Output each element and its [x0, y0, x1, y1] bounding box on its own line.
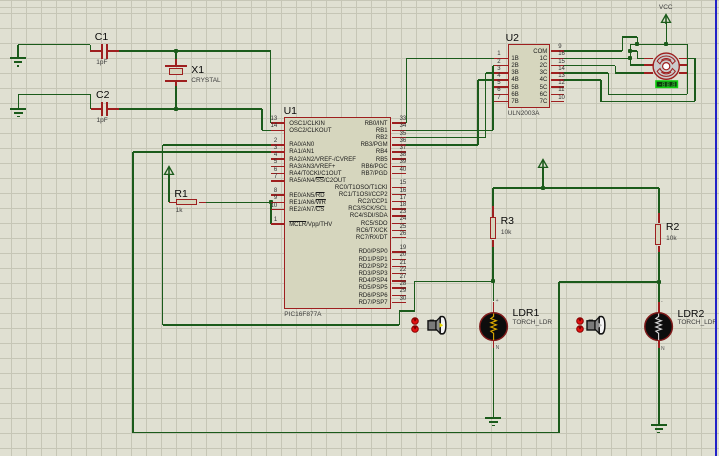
pin 6 stub — [271, 173, 285, 175]
junction — [628, 49, 632, 53]
pin name — [328, 149, 388, 156]
wire — [477, 80, 479, 145]
pin 14 stub — [271, 130, 285, 132]
motor lead bottom-left — [644, 72, 653, 74]
pin number 5 — [441, 80, 501, 87]
wire — [694, 58, 696, 101]
pin name — [511, 63, 518, 70]
wire — [687, 58, 695, 60]
pin number 9 — [217, 195, 277, 202]
pin 39 stub — [392, 166, 405, 168]
label VCC — [659, 4, 673, 11]
pin name — [328, 164, 388, 171]
pin name — [511, 70, 518, 77]
wire — [206, 202, 271, 204]
wire — [399, 311, 401, 325]
pin name — [289, 222, 332, 229]
pin mark — [496, 298, 499, 305]
pin number 34 — [400, 123, 407, 130]
pin number 9 — [558, 44, 561, 51]
wire — [542, 168, 544, 188]
wire — [615, 72, 644, 74]
pin name — [511, 85, 518, 92]
label C2 — [96, 90, 109, 101]
pin 28 stub — [392, 287, 405, 289]
pin name — [289, 200, 326, 207]
wire — [558, 282, 560, 433]
pin name — [328, 235, 388, 242]
wire — [415, 281, 494, 283]
wire — [270, 51, 272, 123]
pin number 39 — [400, 159, 407, 166]
pin name — [328, 285, 388, 292]
wire — [90, 45, 92, 52]
sounder LS1 state dots — [411, 317, 419, 325]
pin 9 stub — [271, 202, 285, 204]
label X1 — [191, 65, 204, 76]
capacitor C1 — [90, 50, 101, 52]
pin name — [289, 207, 324, 214]
wire — [608, 94, 687, 96]
pin 29 stub — [392, 295, 405, 297]
pin name — [328, 199, 388, 206]
pin 34 stub — [392, 130, 405, 132]
wire — [486, 72, 495, 74]
pin number 15 — [558, 59, 565, 66]
pin 15 stub — [551, 65, 564, 67]
pin name — [328, 171, 388, 178]
wire — [658, 188, 660, 212]
value 1k — [176, 207, 183, 214]
wire — [615, 66, 617, 74]
pin name — [328, 278, 388, 285]
junction — [491, 279, 495, 283]
wire — [622, 36, 637, 38]
pin mark — [661, 299, 663, 306]
label LDR1 — [513, 308, 540, 319]
wire 1C — [564, 58, 630, 60]
pin 23 stub — [392, 215, 405, 217]
pin number 16 — [558, 51, 565, 58]
pin 26 stub — [392, 237, 405, 239]
sounder LS1 speaker icon — [427, 313, 449, 337]
pin 37 stub — [392, 151, 405, 153]
wire — [637, 51, 639, 58]
pin number 8 — [217, 188, 277, 195]
junction — [174, 49, 178, 53]
crystal X1 — [175, 51, 177, 58]
pin name — [487, 63, 547, 70]
pin name — [328, 249, 388, 256]
pin name — [289, 142, 314, 149]
pin name — [487, 77, 547, 84]
grid edge line top — [0, 0, 719, 1]
wire RB3 to 4B — [406, 144, 478, 146]
pin number 23 — [400, 209, 407, 216]
ground — [17, 45, 19, 59]
wire — [493, 348, 495, 418]
pin 8 stub — [271, 194, 285, 196]
wire — [119, 108, 262, 110]
label LDR2 — [678, 309, 705, 320]
pin number 5 — [217, 159, 277, 166]
pin 24 stub — [392, 223, 405, 225]
pin name — [511, 99, 518, 106]
pin number 35 — [400, 131, 407, 138]
value TORCH_LDR — [678, 319, 718, 326]
pin 6 stub — [494, 94, 508, 96]
pin number 10 — [217, 203, 277, 210]
pin mark — [661, 346, 665, 353]
wire — [168, 175, 170, 203]
pin number 1 — [217, 217, 277, 224]
pin name — [328, 228, 388, 235]
pin name — [511, 77, 518, 84]
wire RB1 to 2B — [406, 130, 493, 132]
pin name — [289, 193, 324, 200]
pin number 20 — [400, 252, 407, 259]
pin 35 stub — [392, 137, 405, 139]
pin number 38 — [400, 152, 407, 159]
wire — [175, 86, 177, 109]
pin 14 stub — [551, 72, 564, 74]
wire — [492, 188, 494, 206]
pin name — [328, 192, 388, 199]
power VCC arrow — [660, 13, 672, 24]
pin number 28 — [400, 281, 407, 288]
wire RA0 sense — [163, 144, 271, 146]
value CRYSTAL — [191, 77, 220, 84]
pin 15 stub — [392, 187, 405, 189]
pin 21 stub — [392, 266, 405, 268]
pin name — [328, 293, 388, 300]
IC U2 ULN2003A — [508, 44, 550, 108]
pin 5 stub — [271, 166, 285, 168]
wire 1C net vertical — [630, 44, 632, 65]
wire — [601, 101, 695, 103]
pin 33 stub — [392, 122, 405, 124]
pin number 3 — [441, 66, 501, 73]
wire — [478, 79, 494, 81]
pin name — [328, 206, 388, 213]
pin name — [328, 221, 388, 228]
motor display — [655, 80, 679, 89]
pin 38 stub — [392, 158, 405, 160]
pin name — [487, 56, 547, 63]
value 1pF — [96, 59, 107, 66]
pin name — [487, 49, 547, 56]
pin number 15 — [400, 180, 407, 187]
pin 4 stub — [271, 158, 285, 160]
pin number 4 — [441, 73, 501, 80]
wire — [162, 145, 164, 325]
pin 10 stub — [551, 101, 564, 103]
resistor R1 — [169, 202, 176, 204]
pin name — [328, 121, 388, 128]
label U2 — [506, 33, 519, 44]
sounder LS2 state dots — [576, 317, 584, 325]
wire — [608, 73, 610, 95]
wire — [261, 109, 263, 130]
pin name — [328, 128, 388, 135]
junction — [657, 280, 661, 284]
wire — [637, 58, 644, 60]
pin 16 stub — [392, 194, 405, 196]
pin name — [328, 213, 388, 220]
power VCC arrow — [163, 165, 175, 176]
pin name — [487, 85, 547, 92]
pin name — [289, 171, 341, 178]
pin number 13 — [558, 73, 565, 80]
wire COM step — [564, 50, 622, 52]
wire divider rail — [493, 187, 659, 189]
resistor R3 — [492, 206, 494, 217]
pin number 12 — [558, 80, 565, 87]
wire — [600, 80, 602, 102]
pin number 21 — [400, 260, 407, 267]
wire — [485, 73, 487, 138]
wire — [559, 281, 659, 283]
pin number 37 — [400, 145, 407, 152]
junction — [635, 42, 639, 46]
pin 22 stub — [392, 273, 405, 275]
wire VCC rail — [630, 44, 687, 46]
pin number 6 — [441, 87, 501, 94]
pin number 24 — [400, 216, 407, 223]
resistor R2 — [658, 213, 660, 224]
pin 40 stub — [392, 173, 405, 175]
wire — [492, 66, 494, 131]
wire — [622, 37, 624, 51]
wire — [132, 152, 134, 433]
motor lead mid-right — [679, 64, 687, 66]
IC U1 PIC16F877A — [284, 117, 391, 309]
pin number 10 — [558, 95, 565, 102]
pin name — [289, 157, 356, 164]
pin 12 stub — [551, 86, 564, 88]
label R3 — [501, 216, 514, 227]
pin number 19 — [400, 245, 407, 252]
wire — [133, 432, 559, 434]
pin number 18 — [400, 202, 407, 209]
pin 13 stub — [551, 79, 564, 81]
pin 7 stub — [271, 180, 285, 182]
wire — [18, 44, 91, 46]
ground — [658, 424, 660, 426]
pin number 2 — [217, 138, 277, 145]
LDR1 TORCH_LDR — [493, 302, 495, 313]
wire VCC stem — [666, 23, 668, 45]
pin name — [487, 92, 547, 99]
pin number 7 — [441, 95, 501, 102]
wire — [493, 65, 494, 67]
pin 3 stub — [494, 72, 508, 74]
pin mark — [496, 345, 500, 352]
pin 36 stub — [392, 144, 405, 146]
label U1 — [284, 106, 297, 117]
pin 4 stub — [494, 79, 508, 81]
value 10k — [501, 229, 511, 236]
pin number 29 — [400, 288, 407, 295]
value PIC16F877A — [284, 311, 321, 318]
motor lead top-right — [679, 58, 687, 60]
pin name — [328, 157, 388, 164]
pin 25 stub — [392, 230, 405, 232]
wire — [658, 252, 660, 282]
wire — [163, 324, 400, 326]
pin 16 stub — [551, 58, 564, 60]
wire to motor mid-left — [630, 64, 644, 66]
pin number 6 — [217, 167, 277, 174]
pin 20 stub — [392, 259, 405, 261]
wire — [18, 94, 90, 96]
pin name — [328, 185, 388, 192]
pin 19 stub — [392, 251, 405, 253]
wire — [399, 310, 414, 312]
pin number 27 — [400, 274, 407, 281]
pin 7 stub — [494, 101, 508, 103]
pin 9 stub — [551, 50, 564, 52]
pin number 16 — [400, 188, 407, 195]
wire — [637, 37, 639, 44]
LDR2 TORCH_LDR — [658, 302, 660, 313]
junction — [541, 186, 545, 190]
pin 10 stub — [271, 209, 285, 211]
wire — [119, 50, 271, 52]
pin name — [328, 142, 388, 149]
pin name — [511, 56, 518, 63]
wire — [414, 281, 416, 311]
pin 2 stub — [494, 65, 508, 67]
pin name — [289, 128, 331, 135]
pin number 25 — [400, 224, 407, 231]
pin number 11 — [558, 87, 564, 94]
pin number 7 — [217, 174, 277, 181]
junction — [664, 42, 668, 46]
pin 3 stub — [271, 151, 285, 153]
pin number 4 — [217, 152, 277, 159]
wire 2C — [564, 65, 615, 67]
pin 2 stub — [271, 144, 285, 146]
pin 11 stub — [551, 94, 564, 96]
wire 3C — [564, 72, 608, 74]
pin name — [511, 92, 518, 99]
pin number 26 — [400, 231, 407, 238]
pin number 3 — [217, 145, 277, 152]
value TORCH_LDR — [513, 319, 553, 326]
wire RB2 to 3B — [406, 137, 486, 139]
power VCC arrow — [537, 158, 549, 169]
wire — [262, 130, 271, 132]
label C1 — [95, 32, 108, 43]
pin name — [328, 135, 388, 142]
motor lead bottom-right — [679, 72, 687, 74]
pin name — [289, 178, 346, 185]
ground — [18, 95, 20, 109]
pin 5 stub — [494, 86, 508, 88]
motor M1 stepper — [651, 51, 682, 82]
value 10k — [666, 235, 676, 242]
wire — [658, 282, 660, 302]
wire — [407, 58, 495, 60]
wire RA1 sense — [133, 151, 271, 153]
pin name — [328, 271, 388, 278]
pin 13 stub — [271, 122, 285, 124]
pin number 17 — [400, 195, 407, 202]
pin name — [289, 149, 314, 156]
wire — [687, 44, 689, 94]
wire — [658, 348, 660, 425]
pin name — [328, 300, 388, 307]
pin 1 stub — [494, 58, 508, 60]
pin name — [328, 257, 388, 264]
capacitor C2 — [91, 108, 102, 110]
value 1pF — [97, 117, 108, 124]
pin number 36 — [400, 138, 407, 145]
wire — [270, 202, 272, 224]
pin number 14 — [217, 123, 277, 130]
wire jog to motor top-left — [630, 50, 637, 52]
pin number 13 — [217, 116, 277, 123]
pin number 2 — [441, 59, 501, 66]
pin 18 stub — [392, 208, 405, 210]
pin name — [289, 121, 325, 128]
junction — [174, 107, 178, 111]
pin name — [487, 70, 547, 77]
pin number 30 — [400, 296, 407, 303]
junction — [269, 200, 273, 204]
wire 4C — [564, 79, 601, 81]
sheet border — [715, 0, 717, 456]
pin number 14 — [558, 66, 565, 73]
pin number 40 — [400, 167, 407, 174]
value ULN2003A — [508, 110, 540, 117]
wire — [492, 247, 494, 282]
pin 30 stub — [392, 302, 405, 304]
pin 17 stub — [392, 201, 405, 203]
pin name — [328, 264, 388, 271]
label R1 — [174, 189, 187, 200]
pin 27 stub — [392, 280, 405, 282]
junction — [628, 56, 632, 60]
wire — [90, 95, 92, 109]
motor lead mid-left — [644, 64, 653, 66]
ground — [493, 417, 495, 419]
pin name — [487, 99, 547, 106]
pin number 1 — [441, 51, 501, 58]
pin number 22 — [400, 267, 407, 274]
sounder LS2 speaker icon — [586, 313, 608, 337]
pin name — [289, 164, 335, 171]
motor lead top-left — [644, 58, 653, 60]
wire — [493, 281, 495, 301]
pin 1 stub — [271, 223, 285, 225]
wire RB0 to 1B — [406, 58, 408, 123]
pin number 33 — [400, 116, 407, 123]
label R2 — [666, 222, 679, 233]
